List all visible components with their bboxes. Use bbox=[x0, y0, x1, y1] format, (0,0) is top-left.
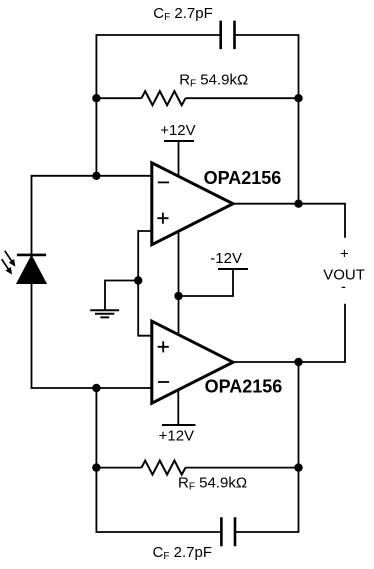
wire: negative supply rail between op-amps (x=178.5) bbox=[178, 229, 180, 337]
wire: bottom feedback loop right rail + capacitor row right segment bbox=[236, 362, 299, 532]
wire: +12V pin of bottom op-amp U2 bbox=[177, 385, 179, 425]
ground symbol bbox=[90, 310, 119, 317]
junction: top inverting input node bbox=[92, 172, 100, 180]
op-amp U1 non-inverting input marker bbox=[157, 213, 168, 224]
resistor R_F (top) zigzag bbox=[142, 91, 186, 105]
wire: bottom resistor row right lead bbox=[186, 467, 299, 469]
svg-text:+12V: +12V bbox=[160, 122, 195, 139]
svg-text:OPA2156: OPA2156 bbox=[204, 168, 282, 188]
photodiode D1 cathode bar bbox=[17, 254, 46, 257]
+12V supply bar (bottom) bbox=[162, 424, 196, 426]
junction: bottom output node bbox=[294, 358, 302, 366]
junction: bottom inverting input node bbox=[92, 384, 100, 392]
svg-text:RF 54.9kΩ: RF 54.9kΩ bbox=[179, 72, 248, 90]
op-amp U1 inverting input marker bbox=[158, 181, 169, 183]
junction: bottom resistor right node bbox=[294, 463, 302, 471]
op-amp U2 inverting input marker bbox=[158, 381, 169, 383]
wire: non-inverting input link rail between op-amps bbox=[138, 231, 152, 336]
wire: top op-amp output row + VOUT+ terminal drop bbox=[233, 204, 345, 238]
svg-text:-12V: -12V bbox=[210, 250, 242, 267]
wire: -12V branch bbox=[179, 269, 234, 296]
svg-text:+12V: +12V bbox=[159, 428, 194, 445]
svg-text:OPA2156: OPA2156 bbox=[205, 376, 283, 396]
junction: bottom resistor left node bbox=[92, 463, 100, 471]
wire: bottom feedback loop left rail + capacitor row left segment bbox=[96, 388, 219, 532]
op-amp U1 (top) triangle bbox=[152, 163, 233, 245]
svg-text:CF 2.7pF: CF 2.7pF bbox=[153, 5, 212, 23]
capacitor C_F (bottom) plates bbox=[221, 517, 235, 546]
capacitor C_F (top) plates bbox=[221, 21, 235, 49]
-12V supply bar bbox=[218, 268, 248, 270]
photodiode light arrow 2 bbox=[2, 259, 12, 274]
junction: negative supply node bbox=[174, 292, 182, 300]
wire: top capacitor row right segment + right rail bbox=[236, 35, 299, 204]
svg-text:CF 2.7pF: CF 2.7pF bbox=[153, 544, 212, 562]
wire: ground branch from node between op-amps bbox=[105, 281, 138, 311]
svg-text:+: + bbox=[340, 246, 349, 263]
wire: top capacitor row left segment + left rail bbox=[96, 35, 219, 176]
wire: VOUT- terminal drop + bottom op-amp output row bbox=[233, 304, 345, 362]
resistor R_F (bottom) zigzag bbox=[142, 461, 186, 475]
junction: top output node bbox=[294, 200, 302, 208]
photodiode D1 anode triangle bbox=[17, 256, 46, 283]
wire: top resistor row right lead bbox=[186, 97, 299, 99]
wire: +12V pin of top op-amp U1 bbox=[178, 141, 180, 180]
wire: bottom resistor row left lead bbox=[96, 467, 141, 469]
junction: top resistor left node bbox=[92, 94, 100, 102]
junction: non-inverting link / ground node bbox=[134, 276, 142, 284]
wire: top resistor row left lead bbox=[96, 97, 141, 99]
junction: top resistor right node bbox=[294, 94, 302, 102]
svg-text:RF 54.9kΩ: RF 54.9kΩ bbox=[178, 475, 247, 493]
svg-text:-: - bbox=[341, 279, 346, 296]
op-amp U2 (bottom) triangle bbox=[152, 321, 233, 403]
op-amp U2 non-inverting input marker bbox=[158, 341, 169, 352]
+12V supply bar (top) bbox=[164, 140, 194, 142]
wire: inverting input rows + photodiode rail bbox=[32, 176, 152, 388]
photodiode light arrow 1 bbox=[5, 251, 16, 267]
